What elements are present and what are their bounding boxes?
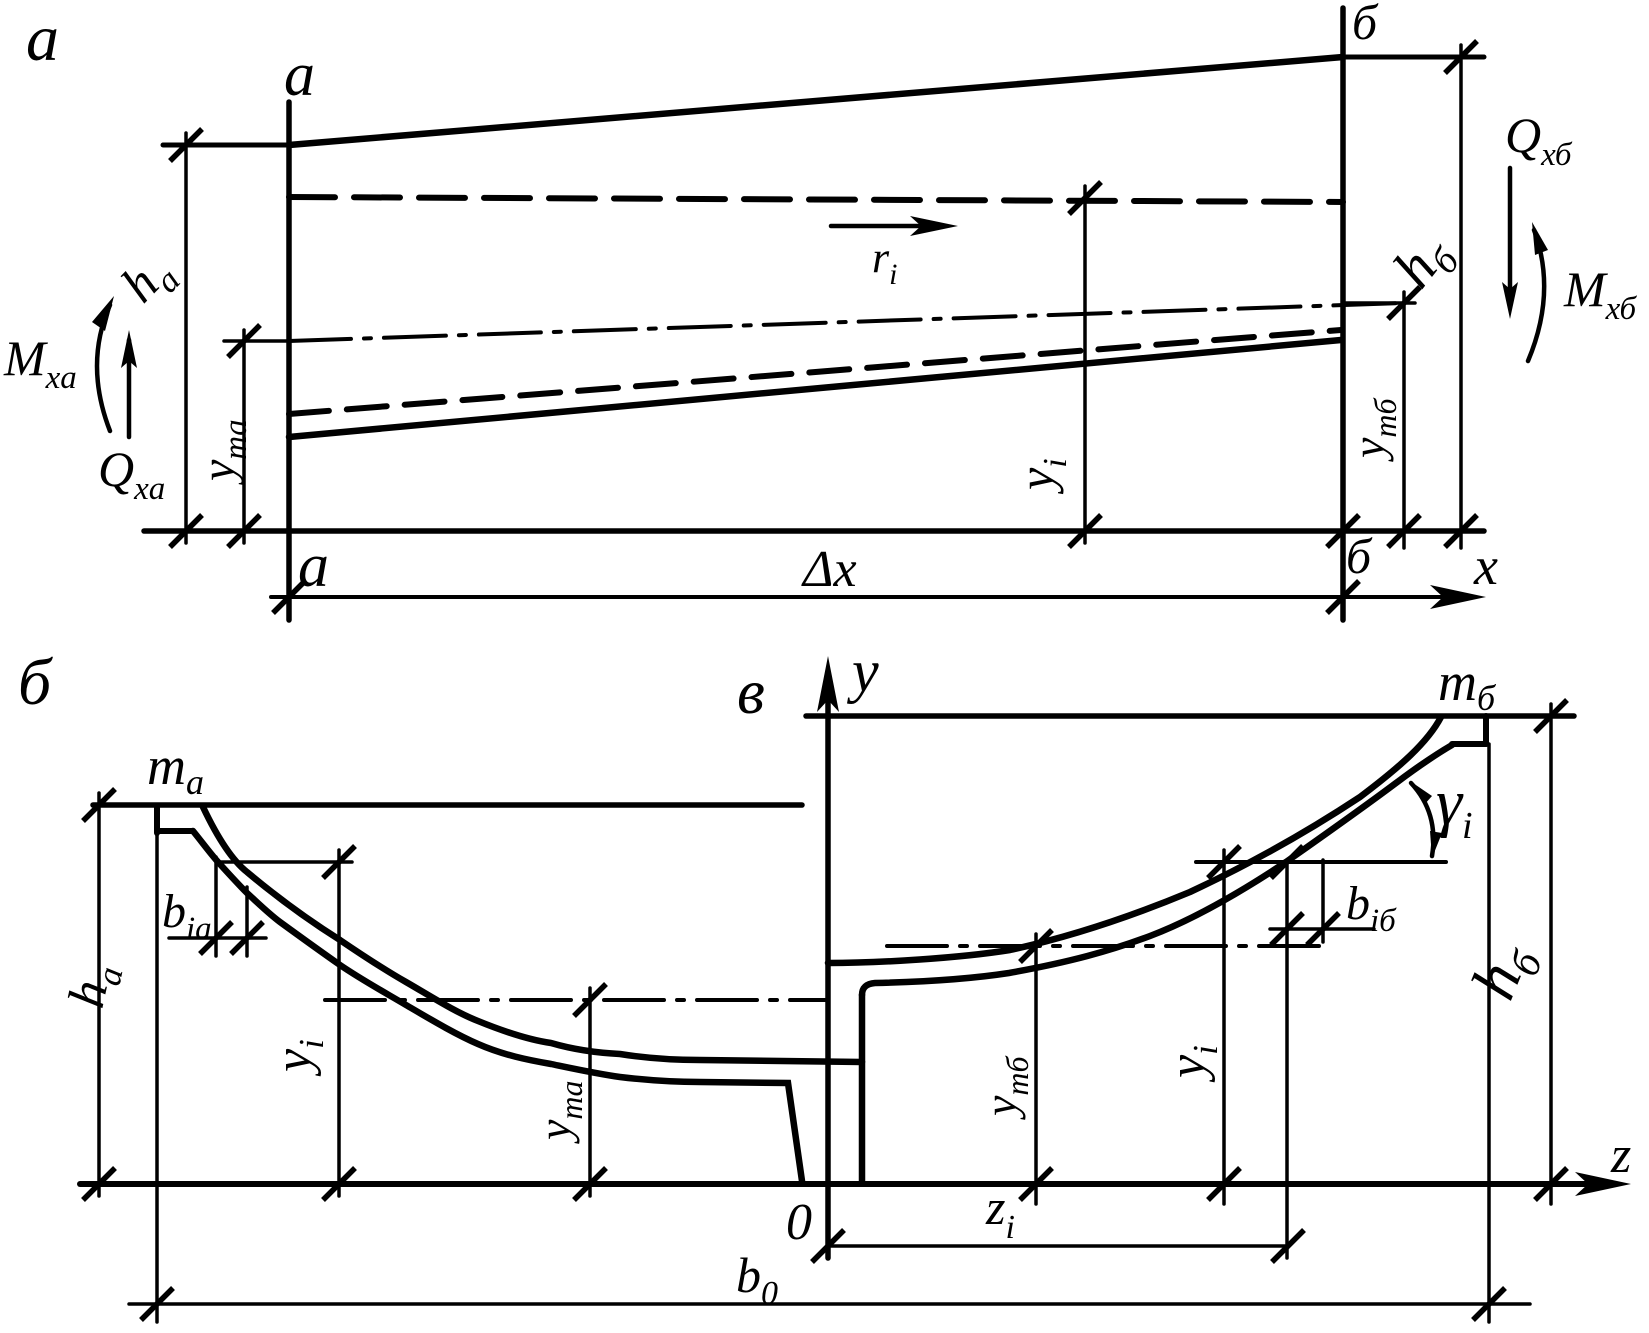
Q_xb force arrow stem (1508, 168, 1513, 288)
tick delta-x left (273, 581, 305, 613)
tick node i on level line (1271, 846, 1303, 878)
b_ib extension verticals (1285, 862, 1289, 1258)
svg-text:z: z (1610, 1127, 1631, 1184)
dash-dot centroid axis (289, 303, 1404, 341)
tick b_0 right (1473, 1288, 1505, 1320)
h_b dimension line (1459, 45, 1463, 548)
y_ta dimension line (fig b) (588, 988, 592, 1196)
M_xb arrowhead (1532, 222, 1548, 255)
tick y_i top (1069, 182, 1101, 214)
upper dashed line (top chord axis) (289, 197, 1343, 202)
M_xb moment arc (1528, 230, 1544, 361)
tick y_i-left top (323, 846, 355, 878)
tie line top-right to h_b (1343, 55, 1484, 60)
svg-text:a: a (298, 532, 329, 600)
y_tb dimension line (fig b) (1034, 934, 1038, 1204)
svg-text:б: б (18, 646, 53, 719)
tick datum at section b (1327, 515, 1359, 547)
tick h_a bottom (170, 515, 202, 547)
arrowheads fig b (817, 656, 1631, 1196)
z axis baseline (80, 1181, 1592, 1187)
y_ta top tie (224, 339, 289, 343)
section line a-a (286, 102, 292, 620)
y axis (825, 700, 831, 1258)
y_tb dimension line (1402, 292, 1406, 548)
beam bottom edge (289, 340, 1341, 437)
tick b_ib right (1307, 913, 1339, 945)
tick h_a fig-b bottom (83, 1168, 115, 1200)
r_i arrow stem (831, 224, 922, 229)
tick h_b fig-b top (1535, 700, 1567, 732)
tick y_ta top (228, 325, 260, 357)
tick delta-x right (1327, 581, 1359, 613)
y_i left level tie (218, 860, 352, 864)
tick y_ta bottom (228, 515, 260, 547)
svg-text:б: б (1352, 0, 1379, 50)
datum baseline (144, 528, 1484, 534)
b_ia dimension line (169, 936, 266, 940)
M_xa moment arc (97, 305, 110, 431)
tick h_b fig-b bottom (1535, 1168, 1567, 1200)
tick y_i bottom (1069, 515, 1101, 547)
tick h_a fig-b top (83, 789, 115, 821)
tick y_tb fig-b top (1020, 930, 1052, 962)
Q_xa arrowhead (121, 330, 137, 368)
lower dashed line (bottom chord axis) (289, 330, 1341, 414)
b_0 dimension line (129, 1302, 1530, 1306)
h_a dimension line (fig b) (97, 793, 101, 1196)
left outer (upper) surface curve (203, 807, 862, 1062)
tick y_tb fig-b bottom (1020, 1168, 1052, 1200)
tick z_i left (812, 1230, 844, 1262)
delta-x dimension line / x axis (271, 595, 1448, 599)
y_tb top tie (1343, 301, 1415, 305)
svg-text:a: a (26, 2, 59, 75)
tick b_ia left (200, 922, 232, 954)
svg-text:в: в (737, 656, 765, 727)
right web inner face (859, 995, 866, 1181)
y_i right level reference line (1196, 860, 1446, 864)
tick y_ta fig-b bottom (574, 1168, 606, 1200)
svg-text:0: 0 (786, 1194, 812, 1251)
y_ta dimension line (242, 330, 246, 543)
h_a dimension line (184, 133, 188, 543)
right outer edge vertical (1483, 716, 1489, 744)
Q_xa force arrow stem (127, 340, 132, 437)
right outer edge extension to b0 (1487, 744, 1491, 1322)
arrowheads fig a (92, 216, 1548, 609)
tick y_i-left bottom (323, 1168, 355, 1200)
y_i right dimension line (1222, 850, 1226, 1204)
left inner (lower) surface curve + web drop (193, 831, 802, 1181)
x axis arrowhead (1430, 585, 1486, 609)
tick y_ta fig-b top (574, 984, 606, 1016)
svg-text:б: б (1346, 528, 1373, 584)
tick z_i right (1272, 1230, 1304, 1262)
tick h_b bottom (1445, 515, 1477, 547)
svg-text:Δx: Δx (801, 541, 857, 598)
left lip bottom (157, 828, 193, 834)
tick h_b top (1445, 41, 1477, 73)
right lower surface curve (862, 745, 1452, 995)
svg-text:x: x (1473, 536, 1498, 596)
dash-dot centroid level right (887, 944, 1325, 948)
tick y_i-right bottom (1208, 1168, 1240, 1200)
svg-text:a: a (284, 41, 315, 109)
tick b_0 left (141, 1288, 173, 1320)
gamma_i angle arc (1411, 783, 1433, 856)
tick b_ib left (1271, 913, 1303, 945)
h_b dimension line (fig b) (1549, 704, 1553, 1204)
z_i dimension line (828, 1244, 1288, 1248)
top line section a level (m_a) (93, 802, 802, 808)
top line section b level (m_b) (806, 713, 1574, 719)
tick y_tb bottom (1388, 515, 1420, 547)
z axis arrowhead (1575, 1172, 1631, 1196)
beam top edge (289, 57, 1343, 145)
tick b_ia right (231, 922, 263, 954)
gamma arc arrowheads (1410, 781, 1432, 805)
r_i arrowhead (910, 216, 958, 236)
b_ia extension verticals (214, 857, 218, 956)
tick h_a top (170, 129, 202, 161)
left section outer edge vertical + extension to b0 (154, 806, 160, 833)
section line b-b (1340, 8, 1346, 620)
right lip bottom (1452, 741, 1486, 747)
y axis arrowhead (817, 656, 839, 712)
M_xa arrowhead (92, 296, 114, 331)
tie line top-left to h_a (163, 143, 289, 148)
y_i dimension line (1083, 186, 1087, 543)
y_i left dimension line (337, 850, 341, 1196)
right upper surface curve (828, 717, 1441, 963)
b_ib dimension line (1270, 927, 1374, 931)
tick y_i-right top (1208, 846, 1240, 878)
tick y_tb top (1388, 287, 1420, 319)
Q_xb arrowhead (1502, 282, 1518, 319)
dash-dot centroid level left (325, 998, 828, 1002)
